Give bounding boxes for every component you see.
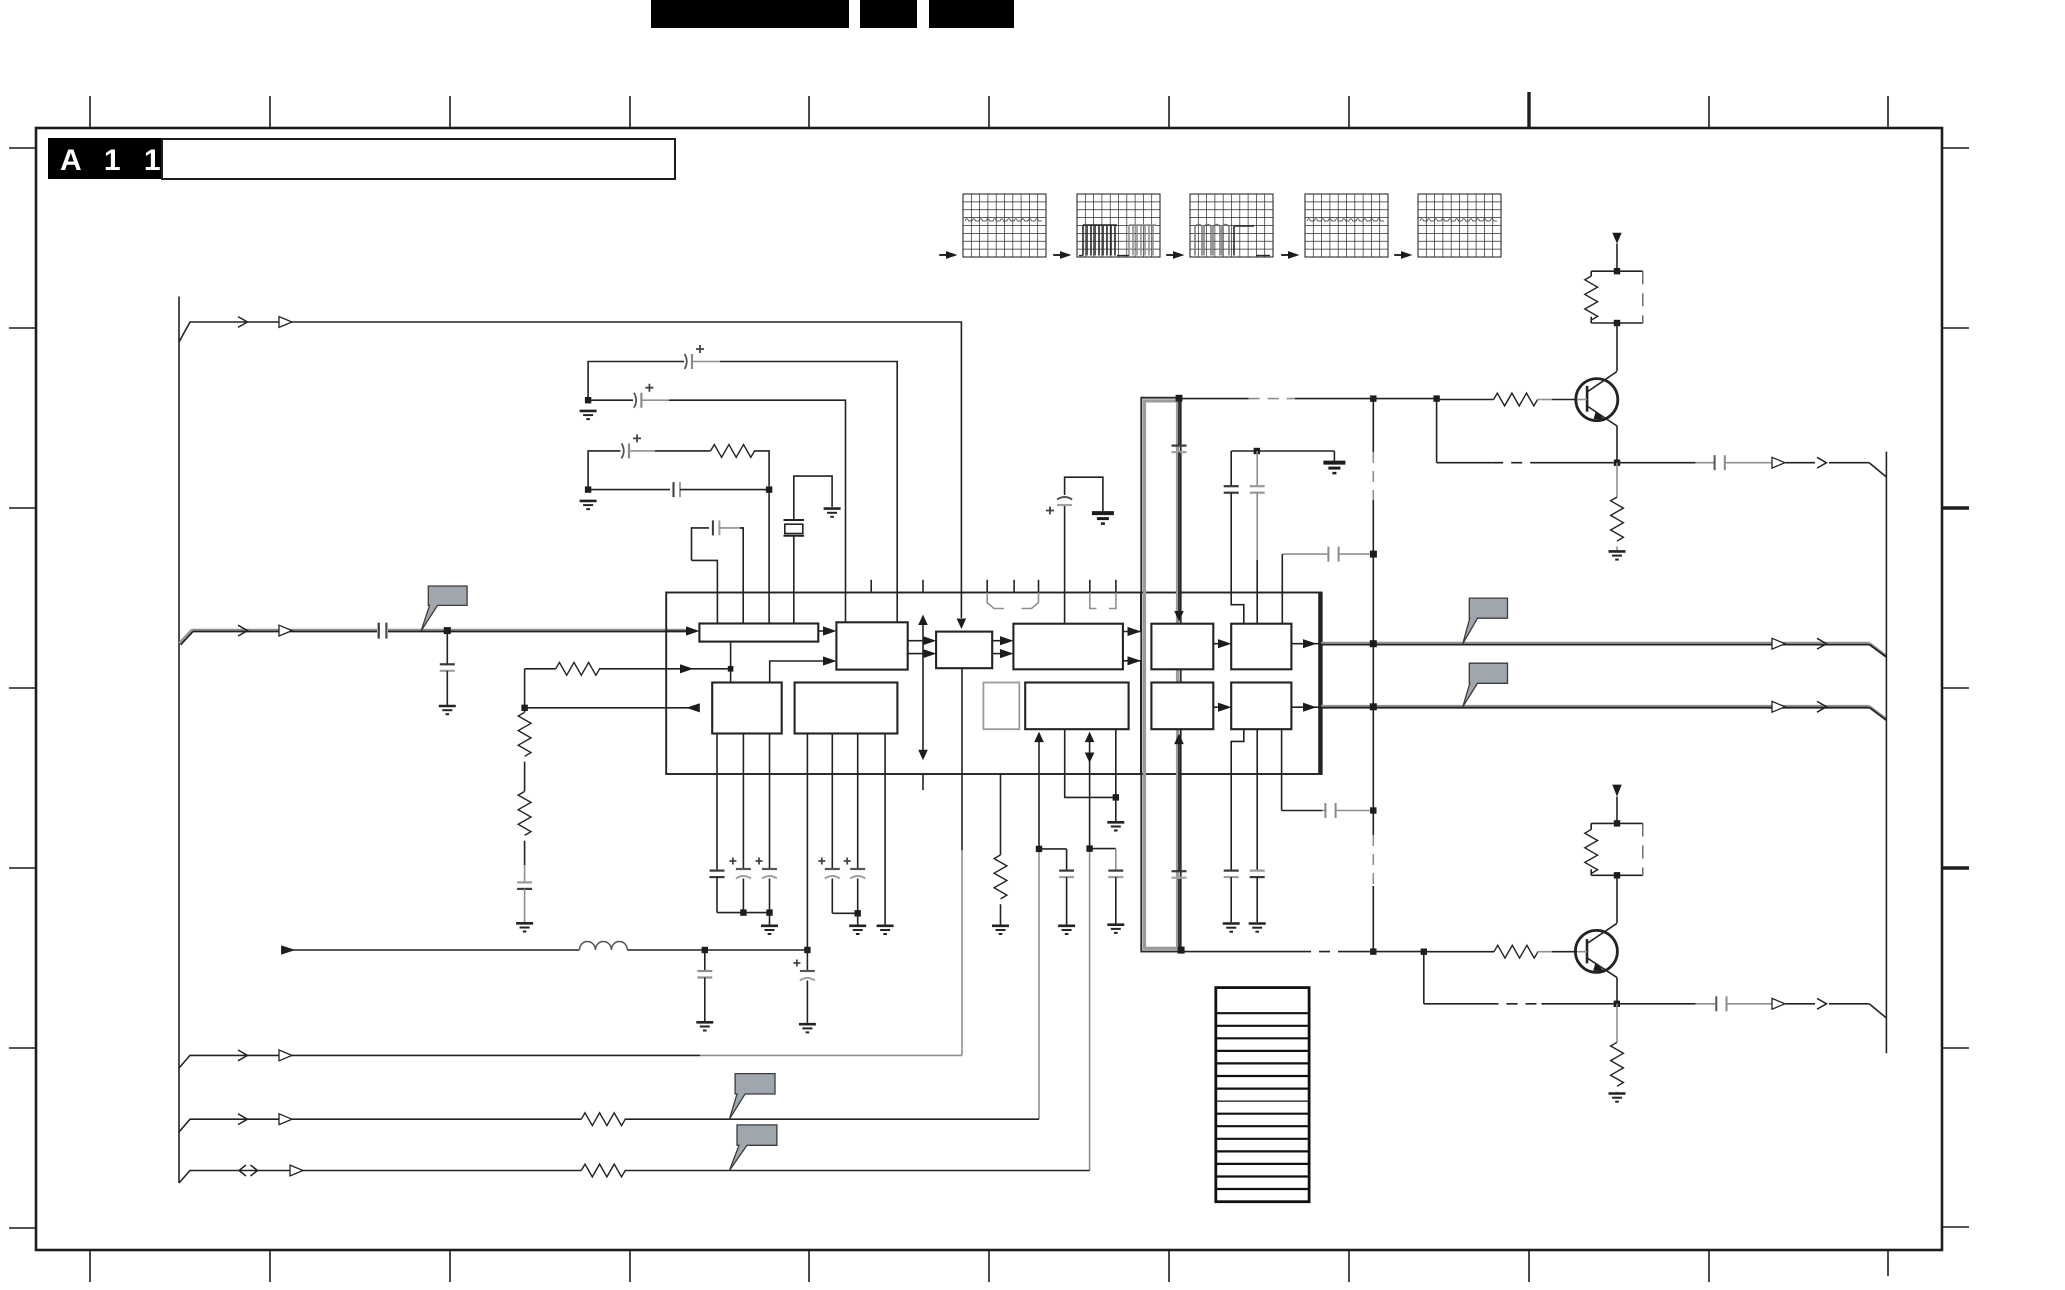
wires B2 to B3 <box>908 636 937 658</box>
wire input2 arrow <box>666 664 733 673</box>
merge vertical wire at right <box>1885 452 1887 1054</box>
transistor Q1 <box>1576 323 1618 463</box>
shield inner wire bottom with capacitor into B11 <box>1172 734 1187 950</box>
svg-text:A 1 1: A 1 1 <box>60 144 168 177</box>
electrolytic capacitor C3 with resistor <box>588 434 769 489</box>
B3 bottom pin long wire to wire1 <box>961 668 963 1055</box>
scope waveform 5 <box>1394 194 1501 259</box>
wire B11 to B12 <box>1213 703 1231 712</box>
connector table <box>1216 988 1309 1202</box>
dashed vertical trunk line <box>1372 399 1374 952</box>
collector resistor network Q1 <box>1585 268 1643 326</box>
B12 bottom pin3 <box>1281 729 1283 774</box>
wire input1 arrow into B1 <box>666 626 699 635</box>
feedback divider resistor 1 <box>518 708 531 757</box>
inductor node 2 with electrolytic to ground <box>793 947 816 1033</box>
electrolytic capacitor C1 top chain <box>588 345 897 622</box>
block B11 <box>1151 683 1213 730</box>
shield inner wire top with capacitor into B5 <box>1172 398 1187 622</box>
cap on B6 pin1 (black) <box>1224 451 1239 593</box>
supply arrow Q1 <box>1612 233 1621 272</box>
wire B4 upper output to shield top <box>1123 593 1141 637</box>
transistor Q2 <box>1575 875 1617 1004</box>
gray bracket marks below IC top edge <box>987 593 1116 609</box>
node trunk/bottom link <box>1370 948 1376 954</box>
wire B7 top pin to B2 lower input <box>770 656 837 682</box>
IC U1 outline <box>666 593 1321 775</box>
wire B1 to B2 <box>818 626 836 635</box>
node trunk/cap553 <box>1370 551 1377 558</box>
B6 top pin 2 <box>1256 593 1258 624</box>
B10 bottom pin jog <box>1065 729 1113 797</box>
shield top node <box>1176 395 1183 402</box>
ground at right end of wire451 <box>1323 451 1345 473</box>
scope waveform 1 <box>939 194 1046 259</box>
B6 top pin jog <box>1231 593 1244 624</box>
group1 electrolytic cap 2 <box>756 734 778 913</box>
B4 top pin from electrolytic <box>1064 593 1066 624</box>
wire3 (to B10 pin2) with resistor <box>179 1164 1090 1183</box>
branch cap to ground from wire3 node <box>1090 849 1125 933</box>
wire2 (to B10) with resistor <box>179 1113 1039 1132</box>
crystal X1 <box>784 476 833 623</box>
redaction box 1 (title) <box>651 0 849 28</box>
wire A (top input) <box>179 317 966 629</box>
Q2 emitter node <box>1614 1001 1620 1007</box>
node trunk/cap810 <box>1370 807 1376 813</box>
cap on B6 pin2 (gray) <box>1250 451 1265 593</box>
group1 bus and ground <box>717 909 778 934</box>
block B5 <box>1151 624 1213 670</box>
Q2 output coupling cap and arrows <box>1617 996 1886 1018</box>
B12 bottom pin2 <box>1256 729 1258 774</box>
wire2 vertical to B10 with arrow <box>1034 732 1044 1120</box>
callout flag 2 <box>1463 663 1508 707</box>
group2 electrolytic cap 1 <box>818 734 840 914</box>
capacitor at y554 to B6 top (gray) <box>1282 547 1370 593</box>
Q1 output coupling cap and arrows <box>1617 455 1886 477</box>
Q1 emitter node <box>1614 460 1620 466</box>
block B3 <box>936 632 992 669</box>
ground below C1/C2 junction <box>580 397 597 419</box>
callout flag B <box>729 1074 775 1120</box>
ground below C3/C4 left junction <box>580 501 597 509</box>
callout flag C <box>729 1125 777 1171</box>
redaction box 2 <box>860 0 917 28</box>
base resistor Q1 <box>1433 393 1577 406</box>
film capacitor C5 (gray) <box>692 520 744 623</box>
block B8 <box>795 683 898 734</box>
callout flag A <box>421 586 467 631</box>
thick bus 1 (upper output) <box>1321 638 1887 657</box>
B10 bottom pin with ground <box>1107 729 1124 830</box>
group2 electrolytic cap 2 <box>844 734 866 914</box>
wires B3 to B4 <box>992 636 1013 658</box>
node trunk/top link <box>1370 395 1376 401</box>
B8 pin to inductor node <box>806 734 808 951</box>
top link wire to Q1 base node <box>1182 398 1437 400</box>
wire B5 to B6 <box>1213 639 1231 648</box>
supply arrow Q2 <box>1612 785 1621 824</box>
IC bottom pin stub <box>922 774 924 790</box>
branch cap to ground from wire2 node <box>1039 849 1075 934</box>
bottom link wire to Q2 base node <box>1182 951 1424 953</box>
capacitor in series with input bus <box>379 623 387 639</box>
collector resistor network Q2 <box>1585 820 1643 878</box>
wire3 vertical to B10 with double arrow <box>1085 732 1095 1171</box>
block B12 <box>1231 683 1291 730</box>
feedback divider resistor 2 <box>518 762 531 866</box>
ground below bypass capacitor <box>439 706 456 714</box>
block B10 <box>1025 683 1128 730</box>
bypass capacitor on input bus <box>440 631 455 705</box>
feedback loop left of IC: B7 output wire <box>525 703 700 712</box>
scope waveform 4 <box>1281 194 1388 259</box>
feedback loop vertical and series resistor <box>521 662 666 711</box>
group1 caps below B7: film cap <box>710 734 725 913</box>
IC top pin stubs <box>871 580 1116 593</box>
block B7 <box>712 683 782 734</box>
film capacitor C4 <box>585 482 772 623</box>
wire1 (to B3) <box>179 1050 962 1068</box>
shield can rectangle <box>1141 398 1180 952</box>
node on input bus <box>444 627 451 634</box>
B8 pin to ground <box>877 734 894 935</box>
internal vertical with up/down arrows <box>918 615 928 761</box>
thick bus 2 (lower output) <box>1321 701 1887 720</box>
redaction box 3 <box>929 0 1014 28</box>
wire B12 output to bus2 <box>1291 703 1320 712</box>
resistor below IC to ground <box>992 774 1009 934</box>
electrolytic above B4 with ground <box>1046 477 1114 592</box>
left input bus line <box>178 297 180 1184</box>
wire B4 lower output to shield bottom <box>1123 656 1141 774</box>
sheet label A11 <box>48 138 675 179</box>
inductor node 1 with cap to ground <box>696 947 713 1031</box>
inductor wire with start arrow <box>281 942 807 955</box>
base resistor Q2 <box>1421 945 1577 958</box>
feedback bottom capacitor to ground <box>516 865 533 931</box>
wire above B6 with two caps <box>1231 448 1334 454</box>
scope waveform 2 <box>1053 194 1160 259</box>
wire B6 output to bus1 <box>1291 639 1320 648</box>
block B4 <box>1013 624 1123 670</box>
group1 electrolytic cap 1 <box>729 734 751 913</box>
Q2 feedback wire to emitter row <box>1424 952 1614 1004</box>
scope waveform 3 <box>1166 194 1273 259</box>
wire gray input bus into IC <box>179 625 686 645</box>
Q1 emitter resistor to ground <box>1609 463 1626 560</box>
shield bottom-right node <box>1178 947 1185 954</box>
block B6 <box>1231 624 1291 670</box>
callout flag 1 <box>1463 598 1508 644</box>
group2 bus and ground <box>832 910 866 934</box>
electrolytic capacitor C2 <box>588 384 845 623</box>
ground right of crystal <box>824 509 841 517</box>
B12 bottom jog pin <box>1231 729 1244 774</box>
coupling capacitor at y810 (gray) <box>1325 803 1370 818</box>
cap below B12 jog to ground <box>1223 774 1240 932</box>
block B2 <box>836 622 907 669</box>
B12 pin3 wire to coupling cap right <box>1282 774 1326 811</box>
block B9 (gray) <box>983 683 1019 730</box>
block B1 <box>699 624 818 642</box>
cap below B12 pin2 to ground <box>1249 774 1266 932</box>
B6 top pin 3 <box>1281 593 1283 624</box>
wire B1 bottom pin to B7 <box>730 642 732 683</box>
Q1 feedback wire to emitter row <box>1437 400 1614 463</box>
Q2 emitter resistor to ground <box>1609 1004 1626 1102</box>
